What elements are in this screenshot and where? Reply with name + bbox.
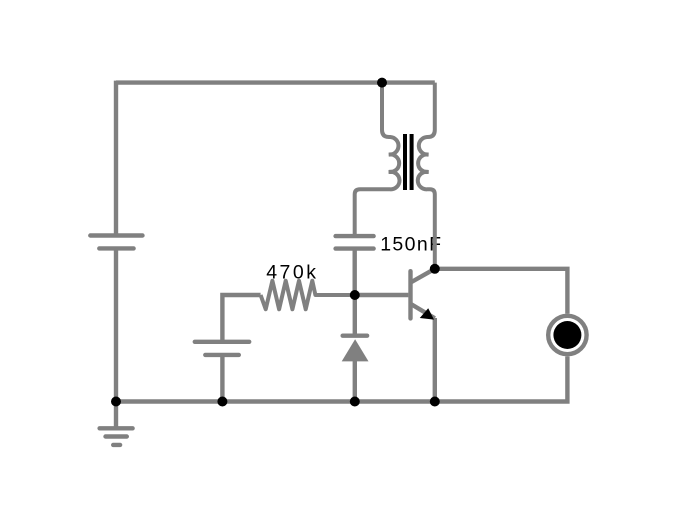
resistor R1 470k xyxy=(261,281,355,310)
capacitor C1 150nF plates xyxy=(336,236,374,249)
battery BT2 xyxy=(195,342,249,355)
battery BT1 xyxy=(90,236,142,249)
diode D1 triangle xyxy=(342,339,369,361)
wire left branch upper xyxy=(114,81,118,236)
lamp L1 outer ring xyxy=(548,316,586,354)
wire capacitor to base node xyxy=(353,249,357,295)
diode D1 cathode bar xyxy=(343,334,367,338)
wire left branch lower xyxy=(114,248,118,401)
wire diode to bottom rail xyxy=(353,360,357,402)
wire bottom rail xyxy=(116,356,567,401)
wire collector to lamp xyxy=(435,269,568,314)
wire battery2 bottom xyxy=(220,355,224,402)
node junction base xyxy=(350,290,360,300)
node junction bottom left ground xyxy=(111,397,121,407)
transistor Q1 base wire xyxy=(355,293,409,297)
transistor Q1 collector lead xyxy=(412,269,435,282)
wire emitter to bottom rail xyxy=(433,318,437,402)
node junction diode bottom xyxy=(350,397,360,407)
transformer T1 primary winding xyxy=(355,83,400,237)
wire base node to diode xyxy=(353,293,357,336)
transistor Q1 base bar xyxy=(408,271,412,318)
transistor Q1 emitter arrowhead xyxy=(420,308,434,319)
lamp L1 black disc xyxy=(553,321,581,349)
node junction collector xyxy=(430,264,440,274)
ground xyxy=(100,402,133,445)
node junction battery2 bottom xyxy=(217,397,227,407)
node junction emitter bottom xyxy=(430,397,440,407)
transistor Q1 emitter lead xyxy=(412,304,435,318)
transformer T1 core bars xyxy=(405,134,412,190)
node junction top rail / primary xyxy=(377,78,387,88)
transformer T1 secondary winding xyxy=(418,83,435,269)
wire top rail xyxy=(116,80,435,84)
wire battery2 top to resistor xyxy=(222,295,260,342)
